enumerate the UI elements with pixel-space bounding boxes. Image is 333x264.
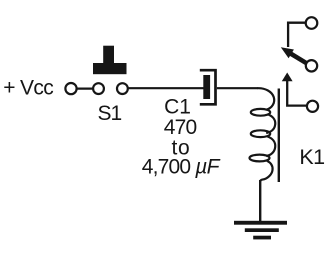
relay movable contact terminal circle [306, 60, 317, 71]
relay K1 coil turn arc 4 and exit [260, 161, 272, 182]
relay K1 coil crossover loop 1 [251, 109, 270, 116]
capacitor C1 positive plate [203, 75, 210, 99]
ground bar 2 [245, 228, 279, 232]
relay K1 core line [278, 89, 280, 183]
wire NC contact [288, 23, 306, 47]
ground bar 3 [253, 236, 271, 240]
svg-text:470: 470 [164, 116, 197, 139]
wire armature to common terminal [287, 81, 307, 106]
svg-text:S1: S1 [97, 102, 121, 125]
relay K1 coil crossover loop 2 [251, 130, 270, 137]
wire C1 to relay coil [217, 87, 258, 89]
relay common terminal circle [307, 101, 318, 112]
relay K1 coil turn arc 3 [266, 137, 275, 157]
capacitor C1 negative plate bracket [200, 70, 216, 104]
relay movable contact arm [291, 54, 308, 64]
svg-text:K1: K1 [299, 145, 324, 169]
switch S1 right contact circle [117, 83, 128, 94]
svg-text:4,700 µF: 4,700 µF [142, 155, 221, 178]
wire Vcc terminal to S1 left contact [77, 87, 93, 89]
wire coil to ground [259, 180, 261, 222]
relay K1 coil crossover loop 3 [250, 155, 270, 162]
relay K1 coil turn arc 2 [266, 114, 275, 133]
ground bar 1 [234, 221, 287, 225]
relay K1 coil turn arc 1 [258, 88, 275, 110]
switch S1 pushbutton actuator [103, 46, 114, 64]
svg-text:+ Vcc: + Vcc [3, 76, 53, 99]
relay K1 armature arrow [282, 73, 293, 82]
switch S1 left contact circle [93, 83, 104, 94]
relay NC terminal circle [306, 17, 318, 29]
wire S1 to C1 [128, 87, 204, 89]
terminal circle Vcc [65, 83, 76, 94]
